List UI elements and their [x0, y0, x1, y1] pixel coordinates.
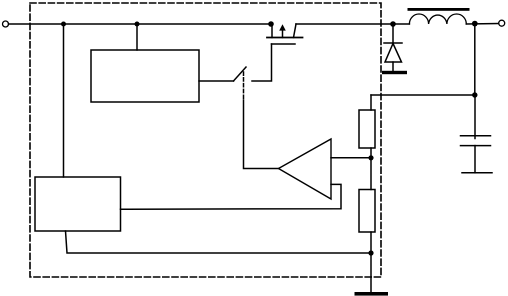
node: divider tap junction: [368, 155, 373, 160]
op-amp U2 (comparator triangle): [279, 139, 332, 199]
inductor L1 winding: [409, 14, 466, 24]
input terminal (left): [3, 21, 9, 27]
node: output junction: [472, 21, 478, 27]
resistor R1 (upper divider): [359, 110, 375, 148]
node: feedback junction: [472, 92, 477, 97]
wire: vertical from node x=137 down to upper block: [136, 24, 138, 50]
capacitor C1 top lead: [474, 95, 476, 139]
transistor Q1 MOSFET body arrow: [279, 24, 286, 30]
node: switch node junction (diode tap): [390, 21, 396, 27]
wire: switch control dashed link: [243, 72, 245, 100]
wire: op-amp output up to switch: [244, 100, 279, 169]
diode D1 cathode bar: [384, 42, 402, 44]
resistor R2 (lower divider): [359, 190, 375, 233]
wire: vertical from node x=63.5 down to lower block: [63, 24, 65, 177]
wire: feedback node down into R1: [370, 95, 372, 110]
wire: input rail, terminal to MOSFET drain: [9, 23, 273, 25]
ground (capacitor bar): [462, 172, 492, 174]
node: MOSFET drain junction: [268, 21, 274, 27]
wire: R2 bottom to ground: [370, 232, 372, 292]
block U3 (lower reference block): [35, 177, 121, 231]
IC dashed boundary box: [30, 3, 381, 277]
diode D1 anode lead: [392, 62, 394, 71]
diode D1 lead: [392, 24, 394, 43]
wire: op-amp lower input hook: [121, 184, 342, 209]
transistor Q1 MOSFET channel bar: [267, 37, 303, 39]
output terminal (right): [499, 20, 505, 26]
wire: lower block bottom lead to bottom rail: [66, 231, 372, 253]
wire: op-amp upper input to divider tap: [331, 157, 371, 159]
transistor Q1 MOSFET gate plate: [272, 43, 296, 45]
transistor Q1 MOSFET left leg (drain): [271, 24, 273, 38]
node: junction at x=137 on input rail: [135, 22, 140, 27]
ground (bottom bar): [355, 292, 389, 296]
wire: MOSFET source to inductor: [296, 23, 409, 25]
capacitor C1 bottom plate: [461, 145, 491, 147]
wire: inductor to output terminal: [466, 23, 498, 26]
node: junction at x=63.5 on input rail: [61, 22, 66, 27]
wire: feedback line from output node to divider: [371, 94, 475, 96]
node: bottom rail junction: [368, 250, 373, 255]
switch S1 fixed contact wire to MOSFET gate: [252, 44, 272, 81]
inductor L1 core bar: [408, 8, 470, 11]
capacitor C1 bottom lead: [474, 146, 476, 173]
wire: output node down to capacitor: [474, 24, 476, 95]
wire: R1 bottom to tap node: [370, 148, 372, 190]
ground (diode thick bar): [382, 71, 407, 74]
diode D1 triangle: [385, 44, 402, 63]
capacitor C1 top plate: [461, 135, 491, 137]
block U1 (upper control block): [91, 50, 199, 102]
switch S1 blade: [234, 67, 247, 81]
transistor Q1 MOSFET right leg (source): [294, 24, 297, 38]
wire: upper block output to switch pivot: [199, 80, 234, 82]
